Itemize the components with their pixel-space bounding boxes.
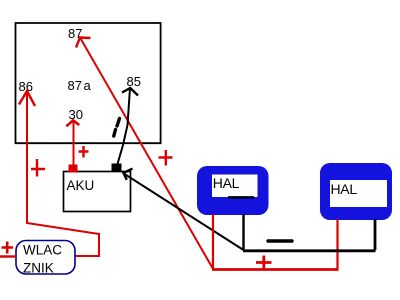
wire battery plus feed to switch left [0,255,16,257]
slash marks across 85 wire [117,119,120,127]
lamp HAL right lens window [330,180,387,207]
lamp HAL right (blue housing) [320,163,392,220]
plus sign on supply bus [256,256,272,270]
black ground wire lamp left vertical [242,214,244,250]
svg-text:HAL: HAL [331,181,358,197]
plus sign beside 87 wire [159,150,173,166]
svg-text:87a: 87a [68,78,92,93]
arrowhead pin87 [76,38,91,48]
arrowhead pin85 [122,88,138,96]
red supply wire lamp right vertical [336,219,338,269]
arrowhead pin86 [19,91,35,106]
lamp HAL left lens shade line [228,196,254,198]
wire pin87 to lamp supply junction (long red diagonal) [80,38,213,269]
arrowhead at battery negative [124,169,133,180]
wire pin30 to battery plus (red vertical) [73,121,75,166]
plus sign at left edge [2,242,14,254]
black ground bus horizontal [243,249,376,252]
switch WLACZNIK box [16,241,75,275]
svg-text:85: 85 [127,74,141,89]
battery AKU box [64,172,131,212]
red supply wire lamp left vertical [212,214,214,269]
svg-text:30: 30 [69,107,83,122]
svg-text:AKU: AKU [67,178,95,193]
svg-text:HAL: HAL [213,175,240,191]
ground wire lamps to battery negative (black diagonal) [123,173,244,250]
plus sign below relay on 86 wire [31,159,45,177]
lamp HAL left lens window [212,175,258,198]
relay K1 box [16,23,161,143]
arrowhead pin30 [66,120,79,126]
black ground wire lamp right vertical [374,219,377,250]
lamp HAL left (blue housing) [197,166,269,215]
svg-text:ZNIK: ZNIK [23,261,54,276]
wire pin85 to battery negative (black) [118,88,131,164]
plus sign near pin30 wire [79,146,89,158]
battery negative terminal (black) [112,164,122,173]
svg-text:WLAC: WLAC [23,243,62,258]
red supply bus horizontal [212,268,339,271]
minus sign above ground bus [268,239,292,242]
battery positive terminal (red) [69,165,78,173]
wire pin86 to switch (red polyline) [27,91,99,256]
